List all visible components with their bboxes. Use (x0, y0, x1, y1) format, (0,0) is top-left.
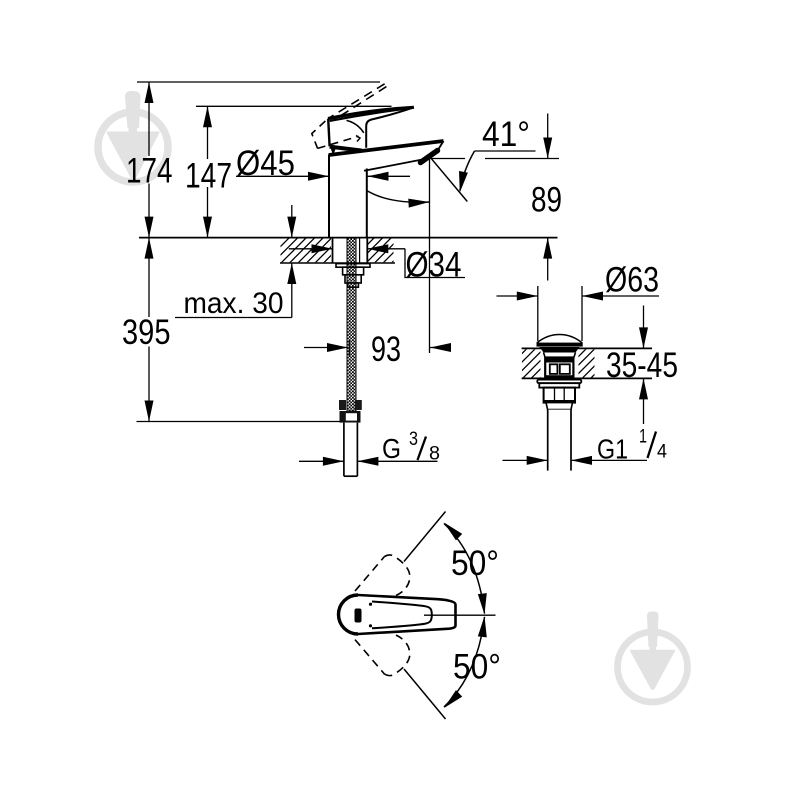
drain extension lines (537, 286, 539, 341)
lower tube (344, 423, 358, 477)
arc up50 (444, 524, 485, 614)
handle centerline (424, 614, 496, 616)
faucet column left edge (328, 155, 330, 238)
svg-text:147: 147 (185, 157, 232, 196)
dimension D34 leader (289, 248, 333, 250)
mounting nut stack (336, 264, 370, 288)
svg-text:G1: G1 (597, 434, 628, 465)
dashed raised lever top edge (329, 84, 385, 119)
watermark bottom-right (618, 612, 688, 703)
dashed raised lever bottom edge (333, 87, 386, 121)
handle logo bar (355, 609, 362, 623)
lever butt front edge (328, 119, 329, 147)
svg-text:50°: 50° (453, 648, 501, 687)
lever blade (328, 107, 414, 118)
rod end fitting (339, 400, 346, 410)
41deg swing arc (460, 151, 475, 191)
extension line top (174) (137, 81, 380, 83)
drain neck (540, 347, 580, 353)
drain body (545, 358, 573, 382)
drain flange (537, 380, 581, 384)
lever neck right edge (366, 107, 414, 147)
dimension G38 (299, 460, 344, 462)
coupling nut (340, 411, 361, 423)
arrowheads D45 (308, 172, 329, 181)
arrowheads 174 (145, 82, 154, 103)
countertop bottom line (280, 262, 395, 264)
svg-text:Ø34: Ø34 (406, 246, 462, 285)
41deg ray (432, 159, 468, 202)
dashed handle up (355, 555, 410, 596)
handle top view solid outline (339, 595, 456, 634)
handle inner outline (372, 602, 432, 629)
ray down50 (404, 669, 446, 719)
drain cap dome (537, 335, 583, 344)
dimension D63 (497, 295, 538, 297)
spout tip edge (437, 141, 444, 152)
countertop top line (139, 237, 558, 239)
svg-text:41°: 41° (482, 115, 530, 154)
dimension line 174 (148, 82, 150, 156)
dashed handle down (355, 635, 410, 676)
threaded rod (347, 238, 356, 411)
arrowheads 147 (203, 106, 212, 127)
spout top edge (329, 141, 444, 155)
svg-text:35-45: 35-45 (606, 346, 678, 385)
svg-text:93: 93 (371, 330, 401, 369)
handle swing arc (341, 153, 430, 203)
svg-text:3: 3 (409, 429, 418, 450)
fraction slashes (418, 437, 427, 461)
lever fill (328, 107, 414, 147)
leader line 41deg (475, 150, 536, 152)
drain deck hatch (522, 349, 541, 377)
dashed lever butt (312, 121, 359, 148)
lever bottom band (330, 147, 362, 151)
dimension line D45 (236, 175, 329, 177)
svg-text:Ø45: Ø45 (236, 144, 295, 183)
aerator axis line (429, 159, 431, 353)
svg-text:Ø63: Ø63 (605, 261, 659, 300)
spout bottom edge (364, 160, 421, 171)
drain deck bottom line (522, 377, 652, 379)
drain tailpipe (548, 410, 571, 471)
svg-text:50°: 50° (451, 544, 499, 583)
drain cap rim (537, 343, 583, 347)
faucet body fill (329, 141, 444, 238)
arc down50 (444, 617, 485, 707)
cartridge dome arc (347, 120, 364, 132)
lever tip wedge (330, 146, 336, 155)
extension line 147 (196, 105, 392, 107)
handle dots (369, 603, 372, 606)
shank edges (332, 238, 334, 263)
aerator (421, 151, 438, 163)
drain flare (546, 403, 573, 410)
watermark top-left (98, 91, 168, 182)
svg-text:8: 8 (429, 444, 440, 465)
svg-text:89: 89 (531, 181, 562, 220)
svg-text:max. 30: max. 30 (184, 287, 284, 320)
svg-text:G: G (382, 433, 401, 464)
countertop hatch (281, 239, 332, 263)
arrowheads 89 (543, 138, 552, 159)
extension line aerator level (428, 158, 465, 160)
dimension line 89 (547, 114, 549, 159)
dimension 395 (148, 238, 150, 317)
svg-text:4: 4 (657, 442, 667, 463)
svg-text:1: 1 (639, 427, 647, 448)
drain deck top line (522, 347, 652, 349)
ray up50 (404, 512, 446, 562)
dimension 35-45 (643, 306, 645, 349)
dimension line 147 (207, 106, 209, 159)
svg-text:174: 174 (126, 152, 173, 191)
faucet column right edge (366, 169, 368, 238)
svg-text:395: 395 (122, 313, 171, 352)
drain nut (544, 388, 575, 403)
dimension 93 (304, 347, 348, 349)
dimension max30 (291, 205, 293, 238)
dimension G114 (503, 459, 548, 461)
